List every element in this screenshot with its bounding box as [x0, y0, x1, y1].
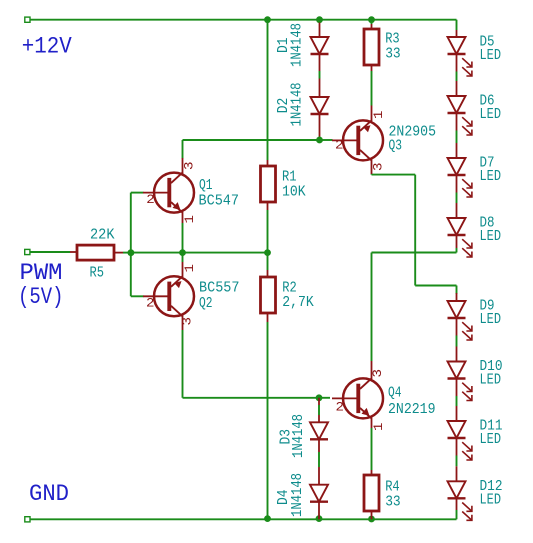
svg-text:2: 2 — [336, 400, 345, 415]
svg-text:LED: LED — [480, 373, 502, 389]
svg-text:LED: LED — [480, 229, 502, 245]
svg-text:3: 3 — [180, 317, 195, 326]
svg-text:R4: R4 — [385, 479, 400, 495]
svg-text:1N4148: 1N4148 — [290, 23, 306, 67]
svg-text:Q3: Q3 — [389, 138, 403, 154]
svg-text:3: 3 — [371, 163, 386, 172]
svg-text:LED: LED — [480, 432, 502, 448]
svg-text:PWM: PWM — [20, 260, 63, 286]
svg-text:2: 2 — [146, 192, 155, 207]
svg-text:(5V): (5V) — [18, 284, 64, 310]
svg-text:LED: LED — [480, 48, 502, 64]
svg-text:R3: R3 — [385, 31, 400, 47]
svg-text:33: 33 — [385, 46, 401, 62]
svg-text:2N2219: 2N2219 — [388, 402, 436, 418]
svg-text:Q1: Q1 — [199, 178, 213, 194]
svg-text:2,7K: 2,7K — [282, 295, 314, 311]
svg-text:1: 1 — [371, 110, 386, 119]
svg-text:GND: GND — [29, 481, 69, 507]
svg-text:+12V: +12V — [22, 34, 72, 60]
svg-text:LED: LED — [480, 169, 502, 185]
svg-text:LED: LED — [480, 107, 502, 123]
svg-text:1N4148: 1N4148 — [290, 83, 306, 127]
svg-text:2: 2 — [335, 138, 344, 153]
svg-text:1: 1 — [371, 422, 386, 431]
svg-text:2: 2 — [146, 296, 155, 311]
svg-text:R5: R5 — [90, 266, 105, 282]
svg-text:1N4148: 1N4148 — [290, 473, 306, 517]
svg-text:22K: 22K — [90, 228, 115, 244]
svg-text:LED: LED — [480, 492, 502, 508]
svg-text:1: 1 — [182, 215, 197, 224]
svg-text:BC557: BC557 — [199, 281, 240, 297]
svg-text:1: 1 — [182, 264, 197, 273]
svg-text:33: 33 — [385, 494, 401, 510]
svg-text:LED: LED — [480, 312, 502, 328]
svg-text:BC547: BC547 — [199, 193, 240, 209]
svg-text:Q4: Q4 — [388, 386, 402, 402]
svg-text:3: 3 — [182, 162, 197, 171]
svg-text:10K: 10K — [282, 185, 306, 201]
svg-text:3: 3 — [370, 369, 385, 378]
svg-text:1N4148: 1N4148 — [291, 414, 307, 458]
svg-text:Q2: Q2 — [199, 296, 213, 312]
svg-text:R1: R1 — [282, 170, 297, 186]
